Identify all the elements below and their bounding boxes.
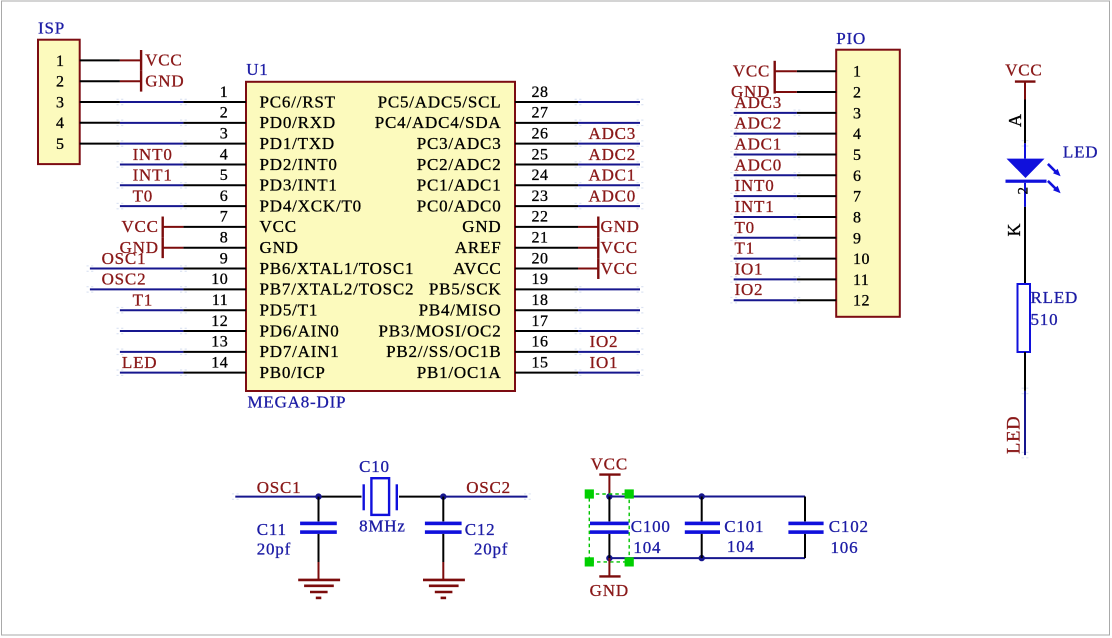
connector PIO pin 6 lead: [797, 174, 836, 176]
U1 pin 27 lead: [515, 122, 578, 124]
wire net ADC1 at U1 pin 24: [578, 184, 640, 186]
U1 pin 28 lead: [515, 101, 578, 103]
svg-text:ADC2: ADC2: [589, 145, 637, 164]
svg-text:PIO: PIO: [836, 29, 866, 48]
svg-text:4: 4: [56, 115, 65, 132]
wire net INT1 at PIO pin 8: [734, 216, 797, 218]
svg-text:VCC: VCC: [260, 217, 297, 236]
wire GND rail (bottom): [609, 557, 805, 559]
U1 pin 3 lead: [183, 143, 246, 145]
svg-text:INT0: INT0: [133, 145, 173, 164]
svg-text:ADC3: ADC3: [735, 93, 783, 112]
svg-text:5: 5: [56, 136, 65, 153]
wire ISP pin 5 to U1 pin 3: [120, 143, 183, 145]
diode D2 LED symbol: [1024, 143, 1026, 158]
power port VCC at PIO pin1: [775, 70, 797, 72]
wire stub at U1 pin 27: [578, 122, 640, 124]
connector PIO pin 4 lead: [797, 133, 836, 135]
U1 pin 7 lead: [183, 226, 246, 228]
U1 pin 17 lead: [515, 330, 578, 332]
svg-text:23: 23: [532, 188, 549, 205]
svg-text:VCC: VCC: [591, 454, 628, 473]
svg-text:GND: GND: [601, 217, 640, 236]
svg-text:PB7/XTAL2/TOSC2: PB7/XTAL2/TOSC2: [260, 280, 415, 299]
U1 pin 11 lead: [183, 309, 246, 311]
wire net IO2 at PIO pin 12: [734, 299, 797, 301]
U1 pin 13 lead: [183, 351, 246, 353]
svg-text:AVCC: AVCC: [453, 259, 501, 278]
svg-text:PD4/XCK/T0: PD4/XCK/T0: [260, 196, 362, 215]
U1 pin 21 lead: [515, 247, 578, 249]
svg-text:13: 13: [211, 334, 228, 351]
svg-text:GND: GND: [260, 238, 299, 257]
svg-text:3: 3: [56, 94, 65, 111]
U1 pin 6 lead: [183, 205, 246, 207]
U1 pin 19 lead: [515, 288, 578, 290]
connector ISP body: [38, 40, 80, 164]
wire RLED to net LED: [1024, 352, 1026, 391]
connector PIO pin 7 lead: [797, 195, 836, 197]
wire stub at U1 pin 19: [578, 288, 640, 290]
wire net ADC0 at PIO pin 6: [734, 174, 797, 176]
power port VCC at U1 pin 7: [163, 226, 184, 228]
svg-text:IO2: IO2: [735, 280, 764, 299]
svg-text:PB0/ICP: PB0/ICP: [260, 363, 326, 382]
wire net OSC1 at U1 pin 9: [90, 268, 183, 270]
svg-text:25: 25: [532, 146, 549, 163]
svg-text:PD1/TXD: PD1/TXD: [260, 134, 336, 153]
wire VCC rail (top): [609, 496, 805, 498]
svg-text:U1: U1: [246, 60, 268, 79]
wire net INT0 at PIO pin 7: [734, 195, 797, 197]
wire LED cathode to RLED: [1024, 207, 1026, 284]
connector ISP pin 3 lead: [80, 101, 120, 103]
U1 pin 18 lead: [515, 309, 578, 311]
connector PIO pin 3 lead: [797, 112, 836, 114]
svg-text:11: 11: [212, 292, 228, 309]
svg-text:INT1: INT1: [133, 166, 173, 185]
svg-text:INT1: INT1: [735, 197, 775, 216]
node junction VCC/C100: [606, 493, 612, 499]
svg-text:ADC1: ADC1: [735, 134, 783, 153]
svg-text:C12: C12: [465, 520, 496, 539]
svg-text:T1: T1: [735, 239, 755, 258]
svg-text:8: 8: [853, 209, 862, 226]
wire net LED at U1 pin 14: [120, 372, 183, 374]
connector PIO pin 12 lead: [797, 299, 836, 301]
wire net IO1 at PIO pin 11: [734, 278, 797, 280]
svg-text:T0: T0: [735, 218, 755, 237]
U1 pin 16 lead: [515, 351, 578, 353]
wire ISP pin 4 to U1 pin 2: [120, 122, 183, 124]
wire net INT1 at U1 pin 5: [120, 184, 183, 186]
svg-text:LED: LED: [1063, 143, 1098, 162]
connector PIO pin 8 lead: [797, 216, 836, 218]
svg-text:AREF: AREF: [455, 238, 502, 257]
svg-text:21: 21: [532, 230, 549, 247]
svg-text:IO1: IO1: [735, 259, 764, 278]
svg-text:GND: GND: [462, 217, 501, 236]
svg-text:4: 4: [853, 126, 862, 143]
svg-text:14: 14: [211, 354, 228, 371]
svg-text:OSC1: OSC1: [257, 478, 302, 497]
svg-text:1: 1: [220, 84, 229, 101]
wire net OSC1 (bottom): [235, 496, 318, 498]
svg-text:PB6/XTAL1/TOSC1: PB6/XTAL1/TOSC1: [260, 259, 415, 278]
capacitor C102: [804, 497, 806, 522]
wire net ADC0 at U1 pin 23: [578, 205, 640, 207]
node junction at C11/OSC1: [315, 493, 321, 499]
U1 pin 26 lead: [515, 143, 578, 145]
wire crystal to OSC2 node: [399, 496, 443, 498]
wire stub at U1 pin 28: [578, 101, 640, 103]
svg-text:PD0/RXD: PD0/RXD: [260, 113, 336, 132]
connector PIO pin 1 lead: [797, 70, 836, 72]
wire net OSC2 at U1 pin 10: [90, 288, 183, 290]
wire net ADC3 at U1 pin 26: [578, 143, 640, 145]
wire net LED (vertical): [1024, 391, 1026, 455]
svg-text:VCC: VCC: [121, 217, 158, 236]
connector PIO pin 10 lead: [797, 258, 836, 260]
svg-text:ISP: ISP: [38, 19, 65, 38]
svg-text:INT0: INT0: [735, 176, 775, 195]
wire net INT0 at U1 pin 4: [120, 163, 183, 165]
svg-text:PC0/ADC0: PC0/ADC0: [417, 196, 502, 215]
U1 pin 20 lead: [515, 268, 578, 270]
svg-text:LED: LED: [1005, 416, 1025, 454]
U1 pin 10 lead: [183, 288, 246, 290]
power port GND at ISP pin2: [120, 80, 141, 82]
svg-text:1: 1: [56, 53, 65, 70]
svg-text:PC5/ADC5/SCL: PC5/ADC5/SCL: [378, 92, 502, 111]
svg-text:22: 22: [532, 209, 549, 226]
svg-text:4: 4: [220, 146, 229, 163]
wire net T0 at PIO pin 9: [734, 237, 797, 239]
svg-text:6: 6: [853, 168, 862, 185]
U1 pin 25 lead: [515, 163, 578, 165]
svg-text:12: 12: [853, 293, 870, 310]
U1 pin 1 lead: [183, 101, 246, 103]
selection handles around C100 (green): [589, 494, 629, 562]
U1 pin 5 lead: [183, 184, 246, 186]
svg-text:ADC0: ADC0: [589, 186, 637, 205]
svg-text:18: 18: [532, 292, 549, 309]
svg-text:ADC3: ADC3: [589, 124, 637, 143]
svg-text:VCC: VCC: [601, 238, 638, 257]
power port VCC at ISP pin1: [120, 59, 141, 61]
svg-text:VCC: VCC: [733, 61, 770, 80]
U1 pin 2 lead: [183, 122, 246, 124]
svg-text:16: 16: [532, 334, 549, 351]
power port VCC at U1 pin 21: [578, 247, 598, 249]
wire stub at U1 pin 18: [578, 309, 640, 311]
resistor RLED 510: [1018, 284, 1031, 352]
svg-text:10: 10: [853, 251, 870, 268]
svg-text:PC6//RST: PC6//RST: [260, 92, 336, 111]
connector PIO pin 5 lead: [797, 153, 836, 155]
svg-text:9: 9: [853, 230, 862, 247]
svg-text:OSC1: OSC1: [102, 249, 147, 268]
svg-text:IO2: IO2: [590, 332, 619, 351]
wire net IO2 at U1 pin 16: [578, 351, 640, 353]
ground symbol below C11: [318, 562, 320, 580]
svg-text:8MHz: 8MHz: [359, 517, 406, 536]
power port GND at U1 pin 8: [163, 247, 184, 249]
svg-text:PD3/INT1: PD3/INT1: [260, 176, 338, 195]
svg-text:C100: C100: [631, 517, 671, 536]
svg-text:2: 2: [56, 74, 65, 91]
svg-text:11: 11: [853, 272, 869, 289]
wire net OSC2 (bottom): [443, 496, 527, 498]
U1 pin 9 lead: [183, 268, 246, 270]
svg-text:PB3/MOSI/OC2: PB3/MOSI/OC2: [379, 321, 502, 340]
svg-text:PD6/AIN0: PD6/AIN0: [260, 321, 340, 340]
svg-text:PC2/ADC2: PC2/ADC2: [417, 155, 502, 174]
svg-text:K: K: [1004, 223, 1024, 237]
wire net T1 at PIO pin 10: [734, 258, 797, 260]
wire net T1 at U1 pin 11: [120, 309, 183, 311]
connector PIO body: [836, 50, 900, 317]
svg-text:27: 27: [532, 105, 549, 122]
power port GND at U1 pin 22: [578, 226, 598, 228]
wire ISP pin 3 to U1 pin 1: [120, 101, 183, 103]
capacitor C12: [442, 497, 444, 522]
node junction C101 top: [699, 493, 705, 499]
svg-text:PC1/ADC1: PC1/ADC1: [417, 176, 502, 195]
capacitor C101: [701, 497, 703, 522]
svg-text:9: 9: [220, 250, 229, 267]
svg-text:GND: GND: [590, 581, 629, 600]
U1 pin 8 lead: [183, 247, 246, 249]
U1 pin 14 lead: [183, 372, 246, 374]
U1 pin 23 lead: [515, 205, 578, 207]
wire VCC to LED anode: [1024, 100, 1026, 144]
connector ISP pin 1 lead: [80, 59, 120, 61]
svg-text:PC3/ADC3: PC3/ADC3: [417, 134, 502, 153]
svg-text:12: 12: [211, 313, 228, 330]
svg-text:IO1: IO1: [590, 353, 619, 372]
svg-text:T0: T0: [133, 186, 153, 205]
node junction GND/C100: [606, 555, 612, 561]
svg-text:106: 106: [831, 538, 859, 557]
svg-text:8: 8: [220, 230, 229, 247]
svg-text:7: 7: [853, 189, 862, 206]
svg-text:OSC2: OSC2: [466, 478, 511, 497]
svg-text:6: 6: [220, 188, 229, 205]
svg-text:MEGA8-DIP: MEGA8-DIP: [248, 393, 347, 412]
svg-text:15: 15: [532, 354, 549, 371]
power port GND below C100: [608, 558, 610, 576]
PIO power ports bar: [774, 61, 776, 94]
wire stub at U1 pin 17: [578, 330, 640, 332]
svg-text:3: 3: [220, 125, 229, 142]
wire net ADC2 at U1 pin 25: [578, 163, 640, 165]
svg-text:PD7/AIN1: PD7/AIN1: [260, 342, 340, 361]
svg-text:VCC: VCC: [145, 51, 182, 70]
svg-text:104: 104: [727, 537, 755, 556]
U1 pin 4 lead: [183, 163, 246, 165]
power port GND at PIO pin2: [775, 91, 797, 93]
wire net ADC1 at PIO pin 5: [734, 153, 797, 155]
wire net ADC3 at PIO pin 3: [734, 112, 797, 114]
svg-text:3: 3: [853, 105, 862, 122]
svg-text:19: 19: [532, 271, 549, 288]
svg-text:20pf: 20pf: [474, 540, 508, 559]
svg-text:PB2//SS/OC1B: PB2//SS/OC1B: [386, 342, 501, 361]
U1 pin 12 lead: [183, 330, 246, 332]
wire net ADC2 at PIO pin 4: [734, 133, 797, 135]
svg-text:VCC: VCC: [1005, 61, 1042, 80]
svg-text:PD2/INT0: PD2/INT0: [260, 155, 338, 174]
node junction C101 bottom: [699, 555, 705, 561]
svg-text:ADC1: ADC1: [589, 166, 637, 185]
connector ISP pin 2 lead: [80, 80, 120, 82]
svg-text:C102: C102: [829, 517, 869, 536]
svg-text:GND: GND: [145, 71, 184, 90]
svg-text:T1: T1: [133, 291, 153, 310]
node junction at C12/OSC2: [440, 493, 446, 499]
svg-text:PB1/OC1A: PB1/OC1A: [417, 363, 502, 382]
svg-text:PC4/ADC4/SDA: PC4/ADC4/SDA: [375, 113, 502, 132]
capacitor C100: [608, 497, 610, 522]
U1 pin 15 lead: [515, 372, 578, 374]
svg-text:20pf: 20pf: [257, 540, 291, 559]
svg-text:OSC2: OSC2: [102, 270, 147, 289]
svg-text:C101: C101: [724, 517, 764, 536]
svg-text:C11: C11: [257, 520, 287, 539]
power port VCC at U1 pin 20: [578, 268, 598, 270]
svg-text:PD5/T1: PD5/T1: [260, 301, 319, 320]
U1 pin 22 lead: [515, 226, 578, 228]
svg-text:24: 24: [532, 167, 549, 184]
connector ISP pin 5 lead: [80, 143, 120, 145]
svg-text:2: 2: [1016, 186, 1032, 194]
svg-text:C10: C10: [359, 457, 390, 476]
connector PIO pin 2 lead: [797, 91, 836, 93]
svg-text:510: 510: [1031, 310, 1059, 329]
svg-text:28: 28: [532, 84, 549, 101]
svg-text:17: 17: [532, 313, 549, 330]
connector ISP pin 4 lead: [80, 122, 120, 124]
svg-text:A: A: [1005, 113, 1025, 127]
svg-text:7: 7: [220, 209, 229, 226]
svg-text:20: 20: [532, 250, 549, 267]
U1 pin 24 lead: [515, 184, 578, 186]
wire OSC1 node to crystal: [319, 496, 362, 498]
svg-text:LED: LED: [122, 353, 157, 372]
svg-text:26: 26: [532, 125, 549, 142]
wire stub at U1 pin 12: [120, 330, 183, 332]
svg-text:2: 2: [853, 85, 862, 102]
svg-text:2: 2: [220, 105, 229, 122]
svg-text:ADC0: ADC0: [735, 155, 783, 174]
svg-text:5: 5: [853, 147, 862, 164]
LED light arrow 1: [1048, 164, 1056, 172]
svg-text:PB5/SCK: PB5/SCK: [429, 280, 502, 299]
svg-text:PB4/MISO: PB4/MISO: [419, 301, 502, 320]
svg-text:10: 10: [211, 271, 228, 288]
wire stub at U1 pin 13: [120, 351, 183, 353]
svg-text:VCC: VCC: [601, 259, 638, 278]
ground symbol below C12: [442, 562, 444, 580]
connector PIO pin 11 lead: [797, 278, 836, 280]
svg-text:RLED: RLED: [1031, 288, 1079, 307]
svg-text:5: 5: [220, 167, 229, 184]
svg-text:ADC2: ADC2: [735, 114, 783, 133]
capacitor C11: [318, 497, 320, 522]
connector PIO pin 9 lead: [797, 237, 836, 239]
crystal C10 symbol: [363, 484, 365, 510]
IC U1 MEGA8-DIP body: [246, 82, 515, 391]
svg-text:1: 1: [853, 64, 862, 81]
LED light arrow 2: [1048, 181, 1056, 189]
svg-text:104: 104: [633, 538, 661, 557]
wire net IO1 at U1 pin 15: [578, 372, 640, 374]
wire net T0 at U1 pin 6: [120, 205, 183, 207]
